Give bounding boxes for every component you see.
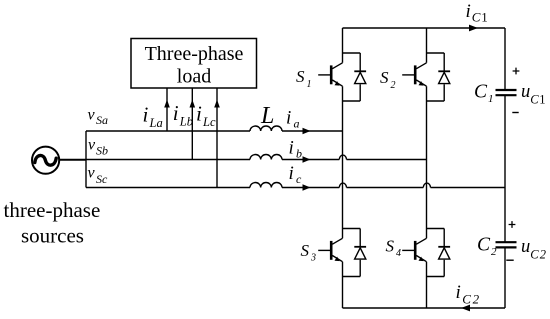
wire phase b to leg2 (347, 159, 427, 161)
arrow i_c (303, 184, 311, 190)
label C1 (474, 82, 494, 105)
svg-text:sources: sources (21, 224, 84, 248)
svg-text:2: 2 (491, 246, 497, 258)
transistor S1 (IGBT) (318, 53, 360, 101)
transistor S4 (IGBT) (402, 229, 444, 277)
top rail wire (343, 27, 506, 29)
label S3 (301, 241, 317, 264)
label ia (286, 108, 300, 131)
svg-text:i: i (196, 102, 202, 126)
inductor L (phase a) (250, 126, 282, 131)
svg-text:1: 1 (307, 79, 312, 90)
inductor phase c (250, 182, 282, 187)
arrow i_C1 (469, 25, 478, 32)
label S4 (386, 237, 402, 260)
arrow i_b (303, 156, 311, 162)
wire i_La (166, 89, 168, 132)
svg-text:three-phase: three-phase (4, 198, 101, 222)
svg-text:S: S (380, 68, 389, 87)
wire source to bus (59, 159, 86, 161)
svg-text:C: C (472, 9, 481, 24)
svg-text:i: i (456, 282, 461, 303)
wire phase b after inductor (282, 159, 339, 161)
diode D1 (antiparallel with S1) (354, 71, 366, 83)
svg-text:C: C (462, 292, 471, 307)
label three-phase sources (4, 198, 101, 248)
wire capacitor bus (504, 28, 506, 308)
wire i_Lc (216, 89, 218, 188)
svg-text:v: v (88, 137, 96, 154)
svg-text:L: L (260, 103, 274, 129)
wire phase c to cap midpoint (431, 187, 506, 189)
svg-text:v: v (88, 165, 96, 182)
label ib (289, 138, 303, 161)
svg-text:1: 1 (539, 93, 545, 107)
label uC2 (521, 237, 546, 262)
svg-text:Three-phase: Three-phase (145, 43, 244, 65)
label iLb (173, 101, 193, 129)
label iC1 (466, 1, 488, 24)
svg-text:1: 1 (481, 9, 488, 24)
svg-text:2: 2 (540, 248, 546, 262)
svg-text:2: 2 (473, 292, 480, 307)
svg-text:b: b (296, 147, 302, 161)
label iC2 (456, 282, 480, 307)
wire phase c (vSc) (86, 187, 250, 189)
source V1 (three-phase source circle) (32, 147, 59, 174)
svg-text:i: i (143, 103, 149, 127)
wire phase a (vSa) (86, 130, 250, 132)
wire leg1 (342, 28, 344, 308)
wire hop phase c over leg1 (339, 183, 346, 187)
svg-text:C: C (530, 248, 539, 262)
svg-text:i: i (466, 1, 471, 22)
wire phase a after inductor (282, 130, 343, 132)
svg-text:Lb: Lb (179, 115, 193, 129)
svg-text:C: C (474, 82, 488, 103)
wire phase b (vSb) (59, 159, 250, 161)
label vSb (88, 137, 108, 158)
svg-text:1: 1 (488, 93, 494, 105)
transistor S3 (IGBT) (318, 229, 360, 277)
transistor S2 (IGBT) (402, 53, 444, 101)
wire phase c after inductor (282, 187, 339, 189)
svg-text:C: C (530, 93, 539, 107)
diode D3 (antiparallel with S3) (354, 247, 366, 259)
svg-text:S: S (386, 237, 395, 256)
svg-text:La: La (149, 116, 163, 130)
svg-text:S: S (301, 241, 310, 260)
svg-text:v: v (88, 107, 96, 124)
label uC1 (521, 82, 546, 107)
label plus C2 (509, 221, 516, 228)
svg-text:a: a (294, 117, 300, 131)
svg-text:Lc: Lc (202, 115, 216, 129)
wire hop phase b over leg1 (339, 155, 346, 159)
label S1 (296, 67, 312, 90)
label iLa (143, 103, 163, 131)
source sine symbol (35, 155, 56, 165)
arrow i_Lb (190, 100, 196, 108)
label plus C1 (513, 68, 520, 75)
diode D4 (antiparallel with S4) (438, 247, 450, 259)
arrow i_a (303, 128, 311, 134)
wire i_Lb (191, 89, 193, 160)
arrow i_La (164, 100, 170, 108)
label minus C1 (512, 112, 518, 114)
label Three-phase load (145, 43, 244, 87)
label S2 (380, 68, 396, 91)
svg-text:i: i (173, 101, 179, 125)
svg-text:i: i (289, 163, 294, 184)
arrow i_Lc (214, 100, 220, 108)
label vSc (88, 165, 109, 187)
inductor phase b (250, 154, 282, 159)
label C2 (477, 235, 497, 259)
svg-text:C: C (477, 235, 491, 256)
bottom rail wire (343, 307, 506, 309)
wire leg2 (426, 28, 428, 308)
svg-text:S: S (296, 67, 305, 86)
svg-text:u: u (521, 82, 530, 102)
svg-text:i: i (286, 108, 291, 129)
capacitor C1 plates (496, 90, 517, 95)
load box (131, 39, 257, 89)
wire phase c mid (347, 187, 424, 189)
svg-text:i: i (289, 138, 294, 159)
svg-text:4: 4 (396, 248, 401, 259)
arrow i_C2 (461, 305, 470, 312)
svg-text:c: c (296, 172, 302, 186)
svg-text:load: load (177, 65, 211, 87)
svg-text:Sa: Sa (96, 113, 108, 127)
wire source vertical bus (85, 131, 87, 188)
svg-text:2: 2 (391, 80, 396, 91)
svg-text:Sc: Sc (96, 172, 108, 186)
label minus C2 (506, 259, 513, 261)
svg-text:u: u (521, 237, 530, 257)
svg-text:Sb: Sb (96, 144, 108, 158)
svg-text:3: 3 (310, 253, 316, 264)
capacitor C2 plates (496, 242, 517, 247)
label iLc (196, 102, 216, 130)
wire hop phase c over leg2 (423, 183, 430, 187)
label ic (289, 163, 303, 186)
diode D2 (antiparallel with S2) (438, 71, 450, 83)
label vSa (88, 107, 109, 128)
